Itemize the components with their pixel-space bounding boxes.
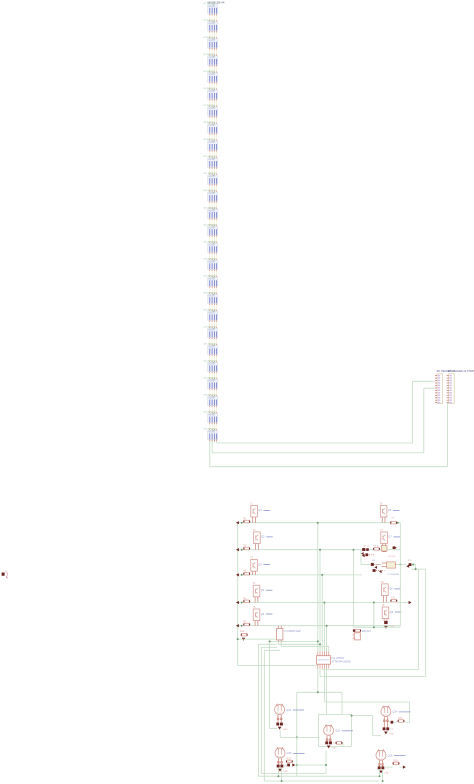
svg-text:T1: T1 bbox=[250, 502, 253, 505]
wire D24-D25 bbox=[210, 407, 217, 412]
wire D2-D3 bbox=[210, 32, 217, 37]
frame reference mark bbox=[2, 571, 8, 579]
svg-text:1 2: 1 2 bbox=[385, 768, 389, 770]
pins of D23 bbox=[210, 389, 217, 397]
svg-text:R17: R17 bbox=[287, 757, 292, 760]
wire D7-D8 bbox=[210, 118, 217, 123]
svg-text:R15: R15 bbox=[398, 717, 403, 720]
wire rail C bbox=[264, 650, 378, 781]
label Q3 name bbox=[258, 563, 270, 566]
junction Q16 b bbox=[382, 780, 384, 782]
svg-text:Q1: Q1 bbox=[258, 509, 262, 512]
wire LED pin stubs to nets bbox=[210, 440, 217, 443]
junction Y1b bbox=[319, 643, 321, 645]
resistor R17 bbox=[286, 760, 293, 763]
LED D6 (WS2812B addressable LED) bbox=[208, 90, 218, 99]
svg-text:D1 WS2812: D1 WS2812 bbox=[204, 3, 216, 5]
svg-text:IC1 ATTINY: IC1 ATTINY bbox=[332, 657, 345, 660]
svg-text:ATTINY44-20SSU: ATTINY44-20SSU bbox=[332, 661, 352, 664]
wire Q15 net bbox=[285, 764, 327, 766]
svg-text:WS2812: WS2812 bbox=[209, 176, 215, 178]
wire Q14 loop bbox=[352, 716, 381, 736]
junction R14 net bbox=[237, 638, 239, 640]
IC U1 (microcontroller) bbox=[316, 652, 330, 669]
connector JP1 pin header bbox=[435, 374, 443, 404]
wire D21-D22 bbox=[210, 356, 217, 361]
wire D17-D18 bbox=[210, 288, 217, 293]
svg-text:1 2: 1 2 bbox=[284, 724, 288, 726]
wire row 4 to IC1 pin 4 bbox=[323, 603, 325, 652]
svg-text:WS2812: WS2812 bbox=[209, 6, 215, 8]
svg-text:JP2 HEADER-12-XT60PW-M HORIZ 2: JP2 HEADER-12-XT60PW-M HORIZ 2 bbox=[448, 370, 474, 373]
ground arrow row 3 bbox=[236, 573, 239, 576]
svg-text:WS2812: WS2812 bbox=[209, 398, 215, 400]
wire row 4 net bbox=[238, 602, 388, 604]
pins Q16 bbox=[378, 760, 383, 766]
label Q14 bbox=[393, 710, 411, 714]
wire loop around Q13 bbox=[319, 714, 352, 746]
resistor R14 bbox=[241, 633, 248, 636]
pads Q13 bbox=[325, 741, 336, 744]
svg-text:GND: GND bbox=[283, 771, 288, 773]
wire net GND: LED pin1 to JP2 bbox=[210, 403, 448, 467]
ground arrow row 1 bbox=[236, 521, 239, 524]
label Q9 name bbox=[390, 611, 402, 614]
svg-text:D25 WS2812: D25 WS2812 bbox=[204, 412, 217, 414]
resistor R2 bbox=[243, 547, 250, 550]
pad Q15 net bbox=[287, 764, 290, 767]
transistor Q1 (row driver) bbox=[251, 505, 258, 522]
svg-text:GND: GND bbox=[389, 734, 394, 736]
transistor Q8 (row driver) bbox=[382, 584, 389, 603]
wire D9-D10 bbox=[210, 152, 217, 157]
resistor R3 bbox=[243, 572, 250, 575]
junction comparator out bbox=[412, 564, 414, 566]
wire rail tops bbox=[258, 644, 280, 650]
ground arrow row 2 bbox=[236, 548, 239, 551]
svg-text:D15 WS2812: D15 WS2812 bbox=[204, 241, 217, 243]
pad cluster mid left bbox=[371, 563, 381, 569]
svg-text:D9 WS2812: D9 WS2812 bbox=[204, 139, 216, 141]
LED D16 (WS2812B addressable LED) bbox=[208, 260, 218, 269]
junction Q14 loop bbox=[351, 715, 353, 717]
svg-text:T2: T2 bbox=[253, 529, 256, 532]
svg-text:WS2812: WS2812 bbox=[209, 295, 215, 297]
pins of D18 bbox=[210, 304, 217, 312]
wire rail A bbox=[258, 644, 377, 776]
svg-text:WS2812: WS2812 bbox=[209, 381, 215, 383]
wire net VDD: LED pin4 to JP1 bbox=[217, 381, 435, 443]
resistor R4 bbox=[243, 600, 250, 603]
wire R14 net bbox=[238, 638, 277, 640]
wire Q15 pads down bbox=[278, 767, 281, 781]
resistor R13 bbox=[354, 629, 361, 632]
junction mid link bbox=[415, 568, 417, 570]
pins of D12 bbox=[210, 201, 217, 209]
pad cluster w2 left bbox=[361, 548, 369, 555]
LED D23 (WS2812B addressable LED) bbox=[208, 379, 218, 388]
label Q2 name bbox=[261, 536, 273, 539]
wire comparator to IC region a bbox=[411, 565, 426, 677]
pins of D6 bbox=[210, 99, 217, 107]
svg-text:D2 WS2812: D2 WS2812 bbox=[204, 20, 216, 22]
svg-text:IC2 LM393D: IC2 LM393D bbox=[388, 574, 400, 576]
junction R4a bbox=[373, 602, 375, 604]
wire D19-D20 bbox=[210, 322, 217, 327]
pads Q16 bbox=[378, 766, 389, 769]
svg-text:D20 WS2812: D20 WS2812 bbox=[204, 326, 217, 328]
svg-text:T7: T7 bbox=[380, 529, 383, 532]
wire Q16 net bbox=[386, 766, 404, 768]
pins of D11 bbox=[210, 184, 217, 192]
svg-text:WS2812: WS2812 bbox=[209, 91, 215, 93]
wire Q12 base bbox=[270, 641, 278, 728]
pad R13 left bbox=[353, 629, 355, 631]
svg-text:D4 WS2812: D4 WS2812 bbox=[204, 54, 216, 56]
transistor Q7 (row driver) bbox=[381, 532, 388, 546]
junction Q15 net b bbox=[325, 764, 327, 766]
pins of D22 bbox=[210, 372, 217, 380]
pins Q15 bbox=[277, 758, 282, 764]
svg-text:WS2812: WS2812 bbox=[209, 278, 215, 280]
wire net row R4 bbox=[354, 550, 401, 628]
ground Q14 bbox=[384, 732, 388, 735]
transistor Q16 (column driver) bbox=[376, 749, 386, 760]
svg-text:D5 WS2812: D5 WS2812 bbox=[204, 71, 216, 73]
svg-text:OUT A: OUT A bbox=[388, 555, 395, 558]
svg-text:D19 WS2812: D19 WS2812 bbox=[204, 309, 217, 311]
LED D24 (WS2812B addressable LED) bbox=[208, 396, 218, 405]
pins of D21 bbox=[210, 355, 217, 363]
ground Q16 bbox=[379, 771, 383, 774]
arrow w2 end bbox=[394, 546, 397, 549]
LED D18 (WS2812B addressable LED) bbox=[208, 294, 218, 303]
pins of D16 bbox=[210, 269, 217, 277]
junction row 2 bbox=[241, 549, 243, 551]
LED D20 (WS2812B addressable LED) bbox=[208, 328, 218, 337]
svg-text:WS2812: WS2812 bbox=[209, 244, 215, 246]
junction Q15 a bbox=[277, 775, 279, 777]
pads Q12 bbox=[276, 723, 287, 726]
pins of D20 bbox=[210, 338, 217, 346]
svg-text:Q5: Q5 bbox=[261, 613, 265, 616]
svg-text:Q16: Q16 bbox=[388, 753, 393, 757]
svg-text:WS2812: WS2812 bbox=[209, 159, 215, 161]
junction base a bbox=[269, 640, 271, 642]
LED D11 (WS2812B addressable LED) bbox=[208, 175, 218, 184]
pins of D15 bbox=[210, 252, 217, 260]
svg-text:T8: T8 bbox=[381, 581, 384, 584]
pins Q12 bbox=[277, 715, 282, 723]
svg-text:D16 WS2812: D16 WS2812 bbox=[204, 258, 217, 260]
pins of D17 bbox=[210, 286, 217, 294]
wire Y1 to IC1 b bbox=[281, 643, 329, 652]
transistor Q4 (row driver) bbox=[253, 585, 260, 602]
svg-text:D14 WS2812: D14 WS2812 bbox=[204, 224, 217, 226]
resistor R8 bbox=[373, 548, 380, 551]
ground arrow row 4 bbox=[236, 601, 239, 604]
svg-text:D17 WS2812: D17 WS2812 bbox=[204, 275, 217, 277]
wire D5-D6 bbox=[210, 84, 217, 89]
resistor R1 bbox=[243, 520, 250, 523]
svg-text:WS2812: WS2812 bbox=[209, 364, 215, 366]
svg-text:D23 WS2812: D23 WS2812 bbox=[204, 378, 217, 380]
wire IC pin7 net bbox=[297, 669, 342, 777]
svg-text:R13 4k7: R13 4k7 bbox=[362, 630, 372, 633]
svg-text:WS2812: WS2812 bbox=[209, 23, 215, 25]
arrow Q15 net bbox=[292, 763, 295, 766]
LED D12 (WS2812B addressable LED) bbox=[208, 192, 218, 201]
wire Q13 to rect bbox=[335, 743, 343, 746]
wire D16-D17 bbox=[210, 271, 217, 276]
wire row 5 net bbox=[238, 625, 401, 627]
svg-text:Q6: Q6 bbox=[388, 509, 392, 512]
transistor Q5 (row driver) bbox=[253, 609, 260, 626]
LED D21 (WS2812B addressable LED) bbox=[208, 345, 218, 354]
wire D15-D16 bbox=[210, 254, 217, 259]
wire row 5 to IC1 pin 5 bbox=[326, 626, 328, 652]
svg-text:D26 WS2812: D26 WS2812 bbox=[204, 429, 217, 431]
svg-text:WS2812: WS2812 bbox=[209, 40, 215, 42]
svg-text:Q15: Q15 bbox=[287, 751, 292, 755]
transistor Q14 (column driver) bbox=[381, 706, 391, 717]
pads Q14 bbox=[383, 727, 394, 730]
svg-text:R8 1k: R8 1k bbox=[373, 546, 379, 548]
wire Q6 collector net bbox=[399, 523, 401, 565]
svg-text:D21 WS2812: D21 WS2812 bbox=[204, 344, 217, 346]
junction Q6 net bbox=[399, 564, 401, 566]
junction row 5 column bbox=[326, 625, 328, 627]
wire D6-D7 bbox=[210, 101, 217, 106]
label Q5 name bbox=[261, 613, 273, 616]
junction p7c bbox=[296, 764, 298, 766]
svg-text:WS2812: WS2812 bbox=[209, 74, 215, 76]
resistor R5 bbox=[243, 623, 250, 626]
svg-text:T5: T5 bbox=[252, 606, 255, 609]
wire Q16 pads down bbox=[379, 769, 382, 781]
LED D7 (WS2812B addressable LED) bbox=[208, 107, 218, 116]
svg-text:R9: R9 bbox=[372, 560, 376, 562]
svg-text:R12: R12 bbox=[391, 597, 396, 600]
svg-text:WS2812: WS2812 bbox=[209, 142, 215, 144]
svg-text:1 2: 1 2 bbox=[390, 729, 394, 731]
svg-text:R14: R14 bbox=[240, 630, 245, 633]
LED D22 (WS2812B addressable LED) bbox=[208, 362, 218, 371]
svg-text:WS2812: WS2812 bbox=[209, 210, 215, 212]
transistor Q11 (small) bbox=[353, 633, 361, 640]
pins of D8 bbox=[210, 133, 217, 141]
LED D14 (WS2812B addressable LED) bbox=[208, 226, 218, 235]
wire IC pin9 net bbox=[322, 669, 418, 670]
label Q1 name bbox=[258, 509, 270, 512]
svg-text:D6 WS2812: D6 WS2812 bbox=[204, 88, 216, 90]
LED D13 (WS2812B addressable LED) bbox=[208, 209, 218, 218]
wire w2-w5 right link bbox=[399, 565, 401, 626]
svg-text:GND: GND bbox=[332, 748, 337, 750]
label Q8 name bbox=[389, 588, 401, 591]
pins of D19 bbox=[210, 321, 217, 329]
wire left bus bbox=[237, 523, 239, 666]
LED D2 (WS2812B addressable LED) bbox=[208, 22, 218, 31]
resistor R12 bbox=[390, 599, 397, 602]
pins Q13 bbox=[326, 736, 331, 742]
svg-text:Q14: Q14 bbox=[393, 710, 398, 714]
wire row 1 to IC1 pin 1 bbox=[317, 523, 319, 652]
pads Q15 bbox=[277, 765, 288, 768]
svg-text:WS2812: WS2812 bbox=[209, 57, 215, 59]
svg-text:D13 WS2812: D13 WS2812 bbox=[204, 207, 217, 209]
LED D3 (WS2812B addressable LED) bbox=[208, 39, 218, 48]
pins of D13 bbox=[210, 218, 217, 226]
junction row 1 column bbox=[317, 522, 319, 524]
wire D20-D21 bbox=[210, 339, 217, 344]
pins of D4 bbox=[210, 65, 217, 73]
LED D10 (WS2812B addressable LED) bbox=[208, 158, 218, 167]
pins of D7 bbox=[210, 116, 217, 124]
row below w2: pad + arrow bbox=[362, 553, 374, 557]
LED D25 (WS2812B addressable LED) bbox=[208, 413, 218, 422]
wire D10-D11 bbox=[210, 169, 217, 174]
junction row 4 column bbox=[323, 602, 325, 604]
pins of D10 bbox=[210, 167, 217, 175]
svg-text:Q12: Q12 bbox=[286, 708, 291, 712]
svg-text:R7 1k: R7 1k bbox=[364, 546, 370, 548]
pins of D3 bbox=[210, 48, 217, 56]
transistor Q13 (column driver) bbox=[324, 725, 334, 736]
wire comparator net bbox=[361, 550, 416, 565]
wire D23-D24 bbox=[210, 390, 217, 395]
svg-text:WS2812: WS2812 bbox=[209, 108, 215, 110]
svg-text:T4: T4 bbox=[252, 582, 255, 585]
wire Y1 to IC1 a bbox=[270, 641, 320, 651]
wire left bus bottom to IC1 bbox=[238, 665, 317, 667]
wire D11-D12 bbox=[210, 186, 217, 191]
label Q15 bbox=[287, 751, 305, 755]
pad Q9 emitter bbox=[384, 621, 387, 624]
pins of D25 bbox=[210, 423, 217, 431]
transistor Q3 (row driver) bbox=[251, 560, 258, 575]
ground Q13 bbox=[327, 746, 331, 749]
svg-text:T3: T3 bbox=[250, 557, 253, 560]
transistor Q12 (column driver) bbox=[275, 704, 285, 715]
arrow Q8 net end bbox=[409, 601, 412, 604]
wire D1-D2 bbox=[210, 15, 217, 20]
label Q7 name bbox=[388, 536, 400, 539]
LED D9 (WS2812B addressable LED) bbox=[208, 141, 218, 150]
wire D14-D15 bbox=[210, 237, 217, 242]
resistor R15 bbox=[398, 720, 405, 723]
wire row 3 to IC1 pin 3 bbox=[321, 575, 323, 652]
wire D3-D4 bbox=[210, 49, 217, 54]
junction row 1 bbox=[241, 522, 243, 524]
svg-text:Y1 16MHz CER: Y1 16MHz CER bbox=[284, 630, 301, 633]
pad cluster mid right bbox=[406, 563, 411, 568]
wire IC pin11 net bbox=[326, 669, 328, 715]
LED D1 (WS2812B addressable LED) bbox=[208, 5, 218, 14]
label Q6 name bbox=[388, 509, 400, 512]
arrow Q9 emitter bbox=[384, 626, 388, 629]
svg-text:Q9: Q9 bbox=[390, 611, 394, 614]
svg-text:WS2812: WS2812 bbox=[209, 193, 215, 195]
connector JP2 pin header bbox=[447, 374, 455, 404]
wire D25-D26 bbox=[210, 424, 217, 429]
wire row 2 to IC1 pin 2 bbox=[319, 550, 321, 652]
pins of D24 bbox=[210, 406, 217, 414]
wire row 3 net bbox=[238, 574, 362, 576]
svg-text:D10 WS2812: D10 WS2812 bbox=[204, 156, 217, 158]
junction row 4 bbox=[241, 602, 243, 604]
junction Q15 b bbox=[281, 780, 283, 782]
svg-text:R18: R18 bbox=[393, 759, 398, 762]
junction Y1a bbox=[317, 640, 319, 642]
svg-text:D11 WS2812: D11 WS2812 bbox=[204, 173, 217, 175]
svg-text:D24 WS2812: D24 WS2812 bbox=[204, 395, 217, 397]
LED D26 (WS2812B addressable LED) bbox=[208, 430, 218, 439]
svg-text:WS2812: WS2812 bbox=[209, 432, 215, 434]
arrow Q16 net end bbox=[403, 766, 406, 769]
resistor R6 bbox=[390, 521, 397, 524]
transistor Q9 (row driver) bbox=[382, 607, 389, 621]
pins of D5 bbox=[210, 82, 217, 90]
label Q13 bbox=[335, 729, 353, 733]
svg-text:WS2812: WS2812 bbox=[209, 329, 215, 331]
pad R14 bbox=[242, 638, 246, 641]
svg-text:Q2: Q2 bbox=[261, 536, 265, 539]
svg-text:Q3: Q3 bbox=[258, 563, 262, 566]
pins of D2 bbox=[210, 31, 217, 39]
svg-text:D7 WS2812: D7 WS2812 bbox=[204, 105, 216, 107]
junction Q16 a bbox=[378, 775, 380, 777]
LED D17 (WS2812B addressable LED) bbox=[208, 277, 218, 286]
ground Q12 bbox=[278, 727, 282, 730]
resonator Y1 bbox=[277, 626, 283, 643]
transistor Q6 (row driver) bbox=[380, 505, 387, 522]
svg-text:Q7: Q7 bbox=[388, 536, 392, 539]
svg-text:GND: GND bbox=[384, 773, 389, 775]
svg-text:Q4: Q4 bbox=[261, 589, 265, 592]
junction row 3 column bbox=[321, 574, 323, 576]
svg-text:WS2812: WS2812 bbox=[209, 227, 215, 229]
svg-text:Q13: Q13 bbox=[335, 729, 340, 733]
svg-text:T9: T9 bbox=[381, 604, 384, 607]
pins Q14 bbox=[383, 717, 388, 728]
row3 pads bbox=[373, 569, 385, 573]
wire D18-D19 bbox=[210, 305, 217, 310]
svg-text:D18 WS2812: D18 WS2812 bbox=[204, 292, 217, 294]
wire Q8 net bbox=[388, 602, 409, 604]
svg-text:T6: T6 bbox=[380, 502, 383, 505]
pad R15 bbox=[391, 721, 394, 724]
wire IC pin10 net bbox=[324, 669, 409, 723]
diode D27 bbox=[381, 545, 387, 551]
wire row 1 net bbox=[238, 522, 401, 524]
junction p7 bbox=[317, 691, 319, 693]
svg-text:WS2812: WS2812 bbox=[209, 415, 215, 417]
LED D4 (WS2812B addressable LED) bbox=[208, 56, 218, 65]
junction R6 bbox=[397, 522, 399, 524]
junction R4b bbox=[373, 626, 375, 628]
wire IC pin8 net bbox=[320, 669, 426, 677]
wire D4-D5 bbox=[210, 66, 217, 71]
svg-text:WS2812: WS2812 bbox=[209, 125, 215, 127]
svg-text:D12 WS2812: D12 WS2812 bbox=[204, 190, 217, 192]
junction row 2 column bbox=[319, 549, 321, 551]
svg-text:R6: R6 bbox=[392, 517, 396, 519]
svg-text:GND: GND bbox=[283, 729, 288, 731]
ground arrow row 5 bbox=[236, 624, 239, 627]
pins of D9 bbox=[210, 150, 217, 158]
svg-text:WS2812: WS2812 bbox=[209, 312, 215, 314]
